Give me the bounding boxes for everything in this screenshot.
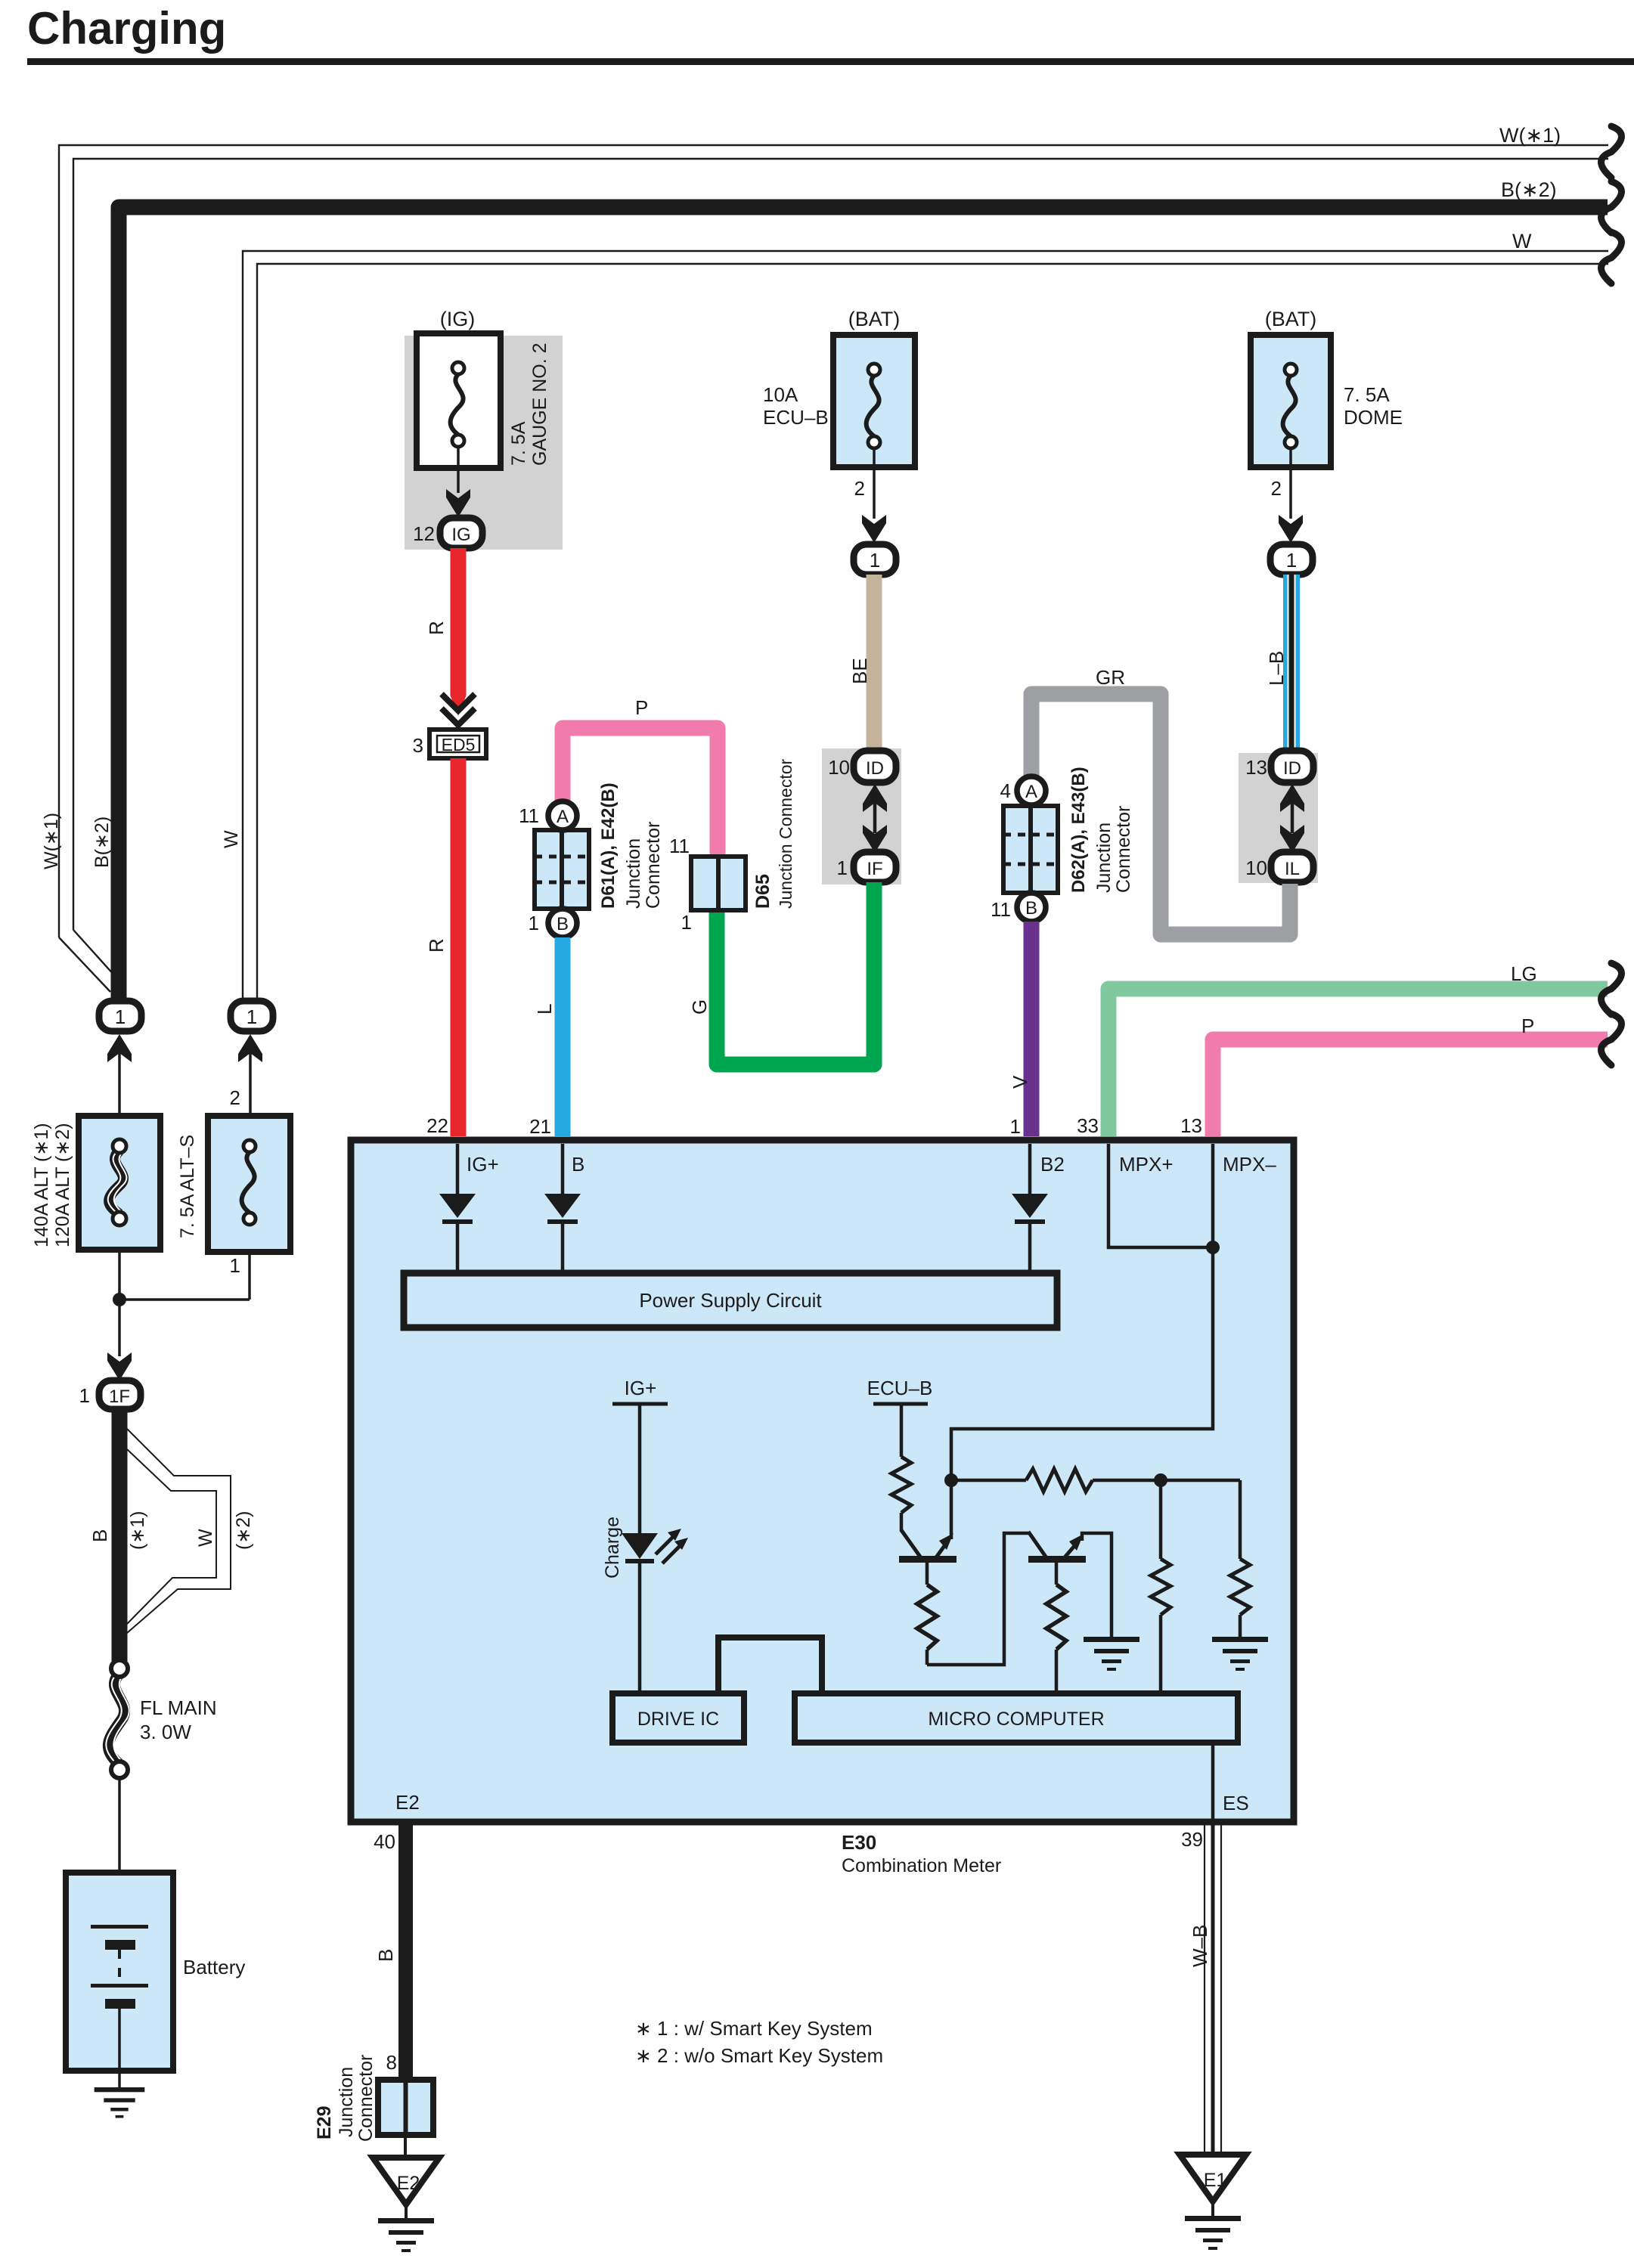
diode IG+: [439, 1144, 476, 1273]
svg-text:Junction: Junction: [1093, 823, 1115, 893]
wire fuse to connector 1: [862, 448, 886, 543]
gray zone ID IF: [822, 748, 901, 885]
svg-text:V: V: [1009, 1075, 1031, 1089]
node MPX junction dot: [1206, 1241, 1220, 1254]
connector 1 (ECU-B): [854, 544, 896, 575]
svg-text:2: 2: [230, 1086, 240, 1109]
svg-text:IG+: IG+: [467, 1153, 499, 1176]
svg-text:11: 11: [669, 835, 690, 857]
wire R red lower: [451, 758, 467, 1136]
wire R red upper: [451, 548, 467, 716]
svg-text:E29: E29: [314, 2106, 335, 2139]
junction connector E29: [378, 2080, 433, 2135]
svg-text:B: B: [88, 1529, 111, 1542]
svg-text:Charging: Charging: [27, 3, 226, 54]
funnel loop W (*2) variant: [127, 1429, 231, 1633]
svg-text:FL MAIN: FL MAIN: [140, 1696, 217, 1719]
fuse 7.5A GAUGE NO.2: [417, 333, 501, 468]
svg-text:13: 13: [1180, 1114, 1202, 1137]
wire ECU-B stub bar: [873, 1404, 928, 1457]
ground E2 triangle: [373, 2135, 439, 2220]
break W(*1): [1601, 126, 1622, 178]
svg-text:W–B: W–B: [1189, 1925, 1211, 1967]
svg-text:1: 1: [870, 549, 880, 572]
wire BE: [867, 575, 882, 751]
gray zone ID IL: [1239, 753, 1318, 883]
junction connector D62 grid: [1003, 806, 1058, 893]
svg-text:R: R: [425, 938, 448, 953]
arrows ID to IF: [863, 784, 887, 853]
svg-text:IG+: IG+: [625, 1377, 657, 1399]
wire to 1F with arrow: [107, 1300, 132, 1380]
svg-text:Connector: Connector: [1113, 806, 1134, 893]
fusible link FL MAIN: [106, 1660, 129, 1778]
wire ALT-S pin2: [249, 1092, 252, 1140]
svg-text:IG: IG: [451, 525, 470, 545]
svg-text:E30: E30: [842, 1831, 876, 1854]
svg-text:Connector: Connector: [355, 2055, 377, 2142]
gray zone IG fuse: [405, 336, 563, 550]
svg-text:IF: IF: [867, 859, 882, 879]
wire P pink left: [563, 728, 718, 857]
wire V purple: [1024, 922, 1040, 1136]
ground Q2 emitter: [1084, 1637, 1139, 1671]
break B(*2): [1601, 181, 1622, 233]
connector IL: [1271, 852, 1313, 882]
svg-text:LG: LG: [1511, 962, 1537, 985]
junction connector D65: [691, 857, 746, 910]
legend smart key: [635, 2017, 883, 2067]
svg-text:D65: D65: [752, 874, 774, 909]
svg-text:B(∗2): B(∗2): [1501, 178, 1557, 201]
svg-text:IL: IL: [1285, 859, 1300, 879]
chevrons above ED5: [442, 694, 475, 725]
svg-text:1F: 1F: [109, 1387, 130, 1407]
node dot right rail: [1154, 1473, 1167, 1487]
svg-text:2: 2: [1271, 477, 1282, 500]
svg-text:Junction: Junction: [623, 838, 644, 909]
resistor R6: [1230, 1480, 1250, 1637]
resistor R3 under Q1: [917, 1563, 937, 1665]
combination meter E30 box: [351, 1140, 1294, 1822]
svg-text:7. 5A ALT–S: 7. 5A ALT–S: [177, 1135, 198, 1238]
wire FL MAIN to battery: [118, 1778, 121, 1925]
svg-text:B(∗2): B(∗2): [91, 816, 113, 868]
connector 1F: [99, 1380, 141, 1409]
label FL MAIN 3. 0W: [140, 1696, 217, 1743]
svg-text:11: 11: [519, 804, 539, 827]
connector IG: [440, 518, 482, 548]
svg-text:MPX–: MPX–: [1223, 1153, 1276, 1176]
svg-text:R: R: [425, 621, 448, 635]
wire W-B: [1205, 1825, 1221, 2155]
micro computer box: [795, 1693, 1238, 1743]
LED Charge: [622, 1529, 688, 1693]
wire MPX- internal: [951, 1144, 1213, 1480]
arrow into connector 1 right: [238, 1034, 262, 1092]
node A (D61): [548, 801, 577, 830]
svg-text:(∗2): (∗2): [233, 1510, 254, 1550]
svg-text:Combination Meter: Combination Meter: [842, 1855, 1001, 1876]
node B (D61): [548, 909, 577, 937]
label E30 Combination Meter: [842, 1831, 1001, 1876]
connector ID left: [854, 751, 896, 782]
svg-text:39: 39: [1181, 1828, 1203, 1851]
arrow into connector 1 left: [107, 1034, 132, 1140]
break P: [1601, 1014, 1622, 1065]
wire G green: [717, 882, 874, 1064]
svg-text:10: 10: [828, 756, 850, 779]
svg-text:Junction: Junction: [336, 2067, 357, 2137]
svg-text:GAUGE NO. 2: GAUGE NO. 2: [529, 342, 550, 466]
svg-text:(∗1): (∗1): [127, 1510, 148, 1550]
svg-text:21: 21: [529, 1115, 551, 1138]
svg-text:1: 1: [837, 857, 848, 879]
svg-text:W: W: [221, 830, 242, 848]
connector ID right: [1271, 751, 1313, 782]
svg-text:3. 0W: 3. 0W: [140, 1721, 191, 1743]
svg-text:P: P: [1521, 1015, 1534, 1037]
svg-text:Junction Connector: Junction Connector: [776, 758, 795, 909]
fuse 7.5A ALT-S: [208, 1116, 290, 1252]
svg-text:(BAT): (BAT): [1265, 308, 1317, 330]
svg-text:W: W: [195, 1529, 216, 1547]
svg-text:2: 2: [854, 477, 865, 500]
svg-text:BE: BE: [848, 658, 871, 684]
label 7. 5A GAUGE NO. 2: [508, 342, 550, 466]
svg-text:B: B: [1025, 898, 1037, 919]
svg-text:1: 1: [681, 911, 692, 934]
svg-text:L–B: L–B: [1265, 651, 1288, 686]
ground E1 triangle: [1180, 2155, 1246, 2217]
resistor R5: [1151, 1480, 1170, 1693]
svg-text:7. 5A: 7. 5A: [508, 421, 529, 466]
svg-text:E1: E1: [1204, 2170, 1227, 2191]
label 140A ALT (*1) 120A ALT (*2): [31, 1123, 73, 1247]
title Charging: [27, 3, 1634, 65]
wire top rail with resistor R2: [951, 1469, 1240, 1492]
svg-text:3: 3: [413, 734, 423, 757]
svg-text:12: 12: [413, 522, 435, 545]
break W: [1601, 232, 1622, 283]
wire P pink right: [1213, 1039, 1608, 1136]
svg-text:D61(A), E42(B): D61(A), E42(B): [598, 782, 619, 909]
svg-text:10A: 10A: [763, 383, 798, 406]
svg-text:ID: ID: [866, 758, 884, 779]
svg-text:1: 1: [1010, 1115, 1021, 1138]
resistor R1 (ECU-B): [891, 1457, 911, 1532]
wire L blue: [555, 937, 571, 1136]
connector 1 (alternator B): [99, 1001, 141, 1031]
svg-text:B: B: [572, 1153, 584, 1176]
break LG: [1601, 963, 1622, 1015]
svg-text:1: 1: [1286, 549, 1297, 572]
node B (D62): [1017, 893, 1046, 922]
wire B black bottom: [398, 1825, 413, 2080]
svg-text:∗ 1 : w/ Smart Key System: ∗ 1 : w/ Smart Key System: [635, 2017, 873, 2040]
svg-text:1: 1: [115, 1005, 126, 1028]
svg-text:1: 1: [230, 1254, 240, 1277]
svg-text:E2: E2: [397, 2173, 420, 2194]
transistor Q2: [1028, 1532, 1112, 1637]
node dot left rail: [944, 1473, 958, 1487]
connector ED5: [429, 730, 486, 758]
svg-text:ECU–B: ECU–B: [867, 1377, 933, 1399]
svg-text:140A ALT (∗1): 140A ALT (∗1): [31, 1123, 52, 1247]
svg-text:W: W: [1512, 230, 1532, 253]
svg-text:B: B: [374, 1949, 397, 1962]
wire fuse outputs junction: [119, 1250, 250, 1300]
wire MPX+ internal: [1108, 1144, 1213, 1247]
svg-text:10: 10: [1245, 857, 1267, 879]
diode B2: [1012, 1144, 1048, 1273]
svg-text:11: 11: [991, 898, 1011, 921]
svg-text:(IG): (IG): [440, 308, 476, 330]
svg-text:ID: ID: [1283, 758, 1301, 779]
svg-text:Battery: Battery: [183, 1956, 245, 1978]
arrows ID to IL: [1280, 784, 1304, 853]
wire ES internal: [1211, 1743, 1215, 1825]
svg-text:1: 1: [529, 912, 539, 934]
diode B: [544, 1144, 581, 1273]
svg-text:D62(A), E43(B): D62(A), E43(B): [1068, 767, 1089, 893]
svg-text:Power Supply Circuit: Power Supply Circuit: [639, 1289, 822, 1312]
drive ic box: [612, 1693, 744, 1743]
svg-text:Charge: Charge: [602, 1517, 623, 1579]
svg-text:∗ 2 : w/o Smart Key System: ∗ 2 : w/o Smart Key System: [635, 2044, 883, 2067]
wire fuse to IG connector: [446, 447, 470, 517]
label 7. 5A DOME: [1344, 383, 1403, 429]
svg-text:DOME: DOME: [1344, 406, 1403, 429]
wire W: [243, 251, 1608, 1001]
connector 1 (DOME): [1270, 544, 1313, 575]
ground symbol E1: [1185, 2216, 1241, 2250]
svg-text:B2: B2: [1040, 1153, 1065, 1176]
svg-text:E2: E2: [395, 1791, 420, 1814]
wire W(*1): [59, 145, 1608, 992]
wire IG+ stub bar: [612, 1404, 668, 1535]
svg-text:7. 5A: 7. 5A: [1344, 383, 1390, 406]
wire drive ic to micro computer: [718, 1637, 822, 1693]
label Junction Connector (D62): [1093, 806, 1134, 893]
node A (D62): [1017, 776, 1046, 805]
svg-text:DRIVE IC: DRIVE IC: [637, 1709, 719, 1730]
svg-text:A: A: [557, 807, 569, 827]
transistor Q1: [899, 1480, 957, 1563]
svg-text:40: 40: [374, 1830, 395, 1853]
fuse 10A ECU-B: [833, 335, 915, 467]
svg-text:ES: ES: [1223, 1792, 1249, 1814]
svg-text:Connector: Connector: [643, 822, 664, 909]
wire LG: [1108, 989, 1608, 1136]
svg-text:G: G: [688, 999, 711, 1015]
connector 1 (alternator S): [231, 1001, 273, 1031]
svg-text:P: P: [635, 696, 648, 719]
wire B(*2) thick black: [119, 207, 1608, 1001]
svg-text:13: 13: [1245, 756, 1267, 779]
svg-text:8: 8: [386, 2051, 397, 2074]
connector IF: [854, 852, 896, 882]
svg-text:L: L: [533, 1004, 556, 1015]
ground battery: [95, 2087, 145, 2118]
svg-text:A: A: [1025, 782, 1037, 802]
junction dot: [113, 1293, 126, 1306]
svg-text:1: 1: [79, 1384, 90, 1407]
junction connector D61 grid: [535, 830, 589, 909]
svg-text:4: 4: [1000, 779, 1011, 802]
svg-text:22: 22: [426, 1114, 448, 1137]
svg-text:W(∗1): W(∗1): [1499, 124, 1561, 147]
label Junction Connector (D61): [623, 822, 664, 909]
svg-text:MICRO COMPUTER: MICRO COMPUTER: [928, 1709, 1104, 1730]
svg-text:120A ALT (∗2): 120A ALT (∗2): [52, 1123, 73, 1247]
wire GR gray: [1031, 694, 1290, 934]
power supply circuit box: [404, 1273, 1057, 1328]
svg-text:W(∗1): W(∗1): [41, 813, 62, 869]
label 10A ECU-B: [763, 383, 829, 429]
label Junction Connector (E29): [336, 2055, 377, 2142]
ground R6: [1212, 1637, 1268, 1671]
svg-text:GR: GR: [1096, 666, 1125, 689]
wire L-B: [1283, 575, 1300, 751]
fuse 140A ALT: [79, 1116, 160, 1250]
svg-text:(BAT): (BAT): [848, 308, 901, 330]
svg-text:MPX+: MPX+: [1119, 1153, 1174, 1176]
svg-text:B: B: [557, 914, 569, 934]
wire B thick below 1F: [112, 1409, 128, 1662]
fuse 7.5A DOME: [1251, 335, 1331, 467]
wire cross-coupling: [927, 1533, 1030, 1665]
battery: [66, 1873, 173, 2087]
resistor R4 under Q2: [1046, 1563, 1066, 1693]
svg-text:1: 1: [246, 1005, 257, 1028]
svg-text:ECU–B: ECU–B: [763, 406, 829, 429]
svg-text:33: 33: [1077, 1114, 1099, 1137]
wire fuse to connector 1 DOME: [1279, 448, 1303, 543]
ground symbol E2: [378, 2218, 434, 2252]
svg-text:ED5: ED5: [442, 735, 476, 754]
